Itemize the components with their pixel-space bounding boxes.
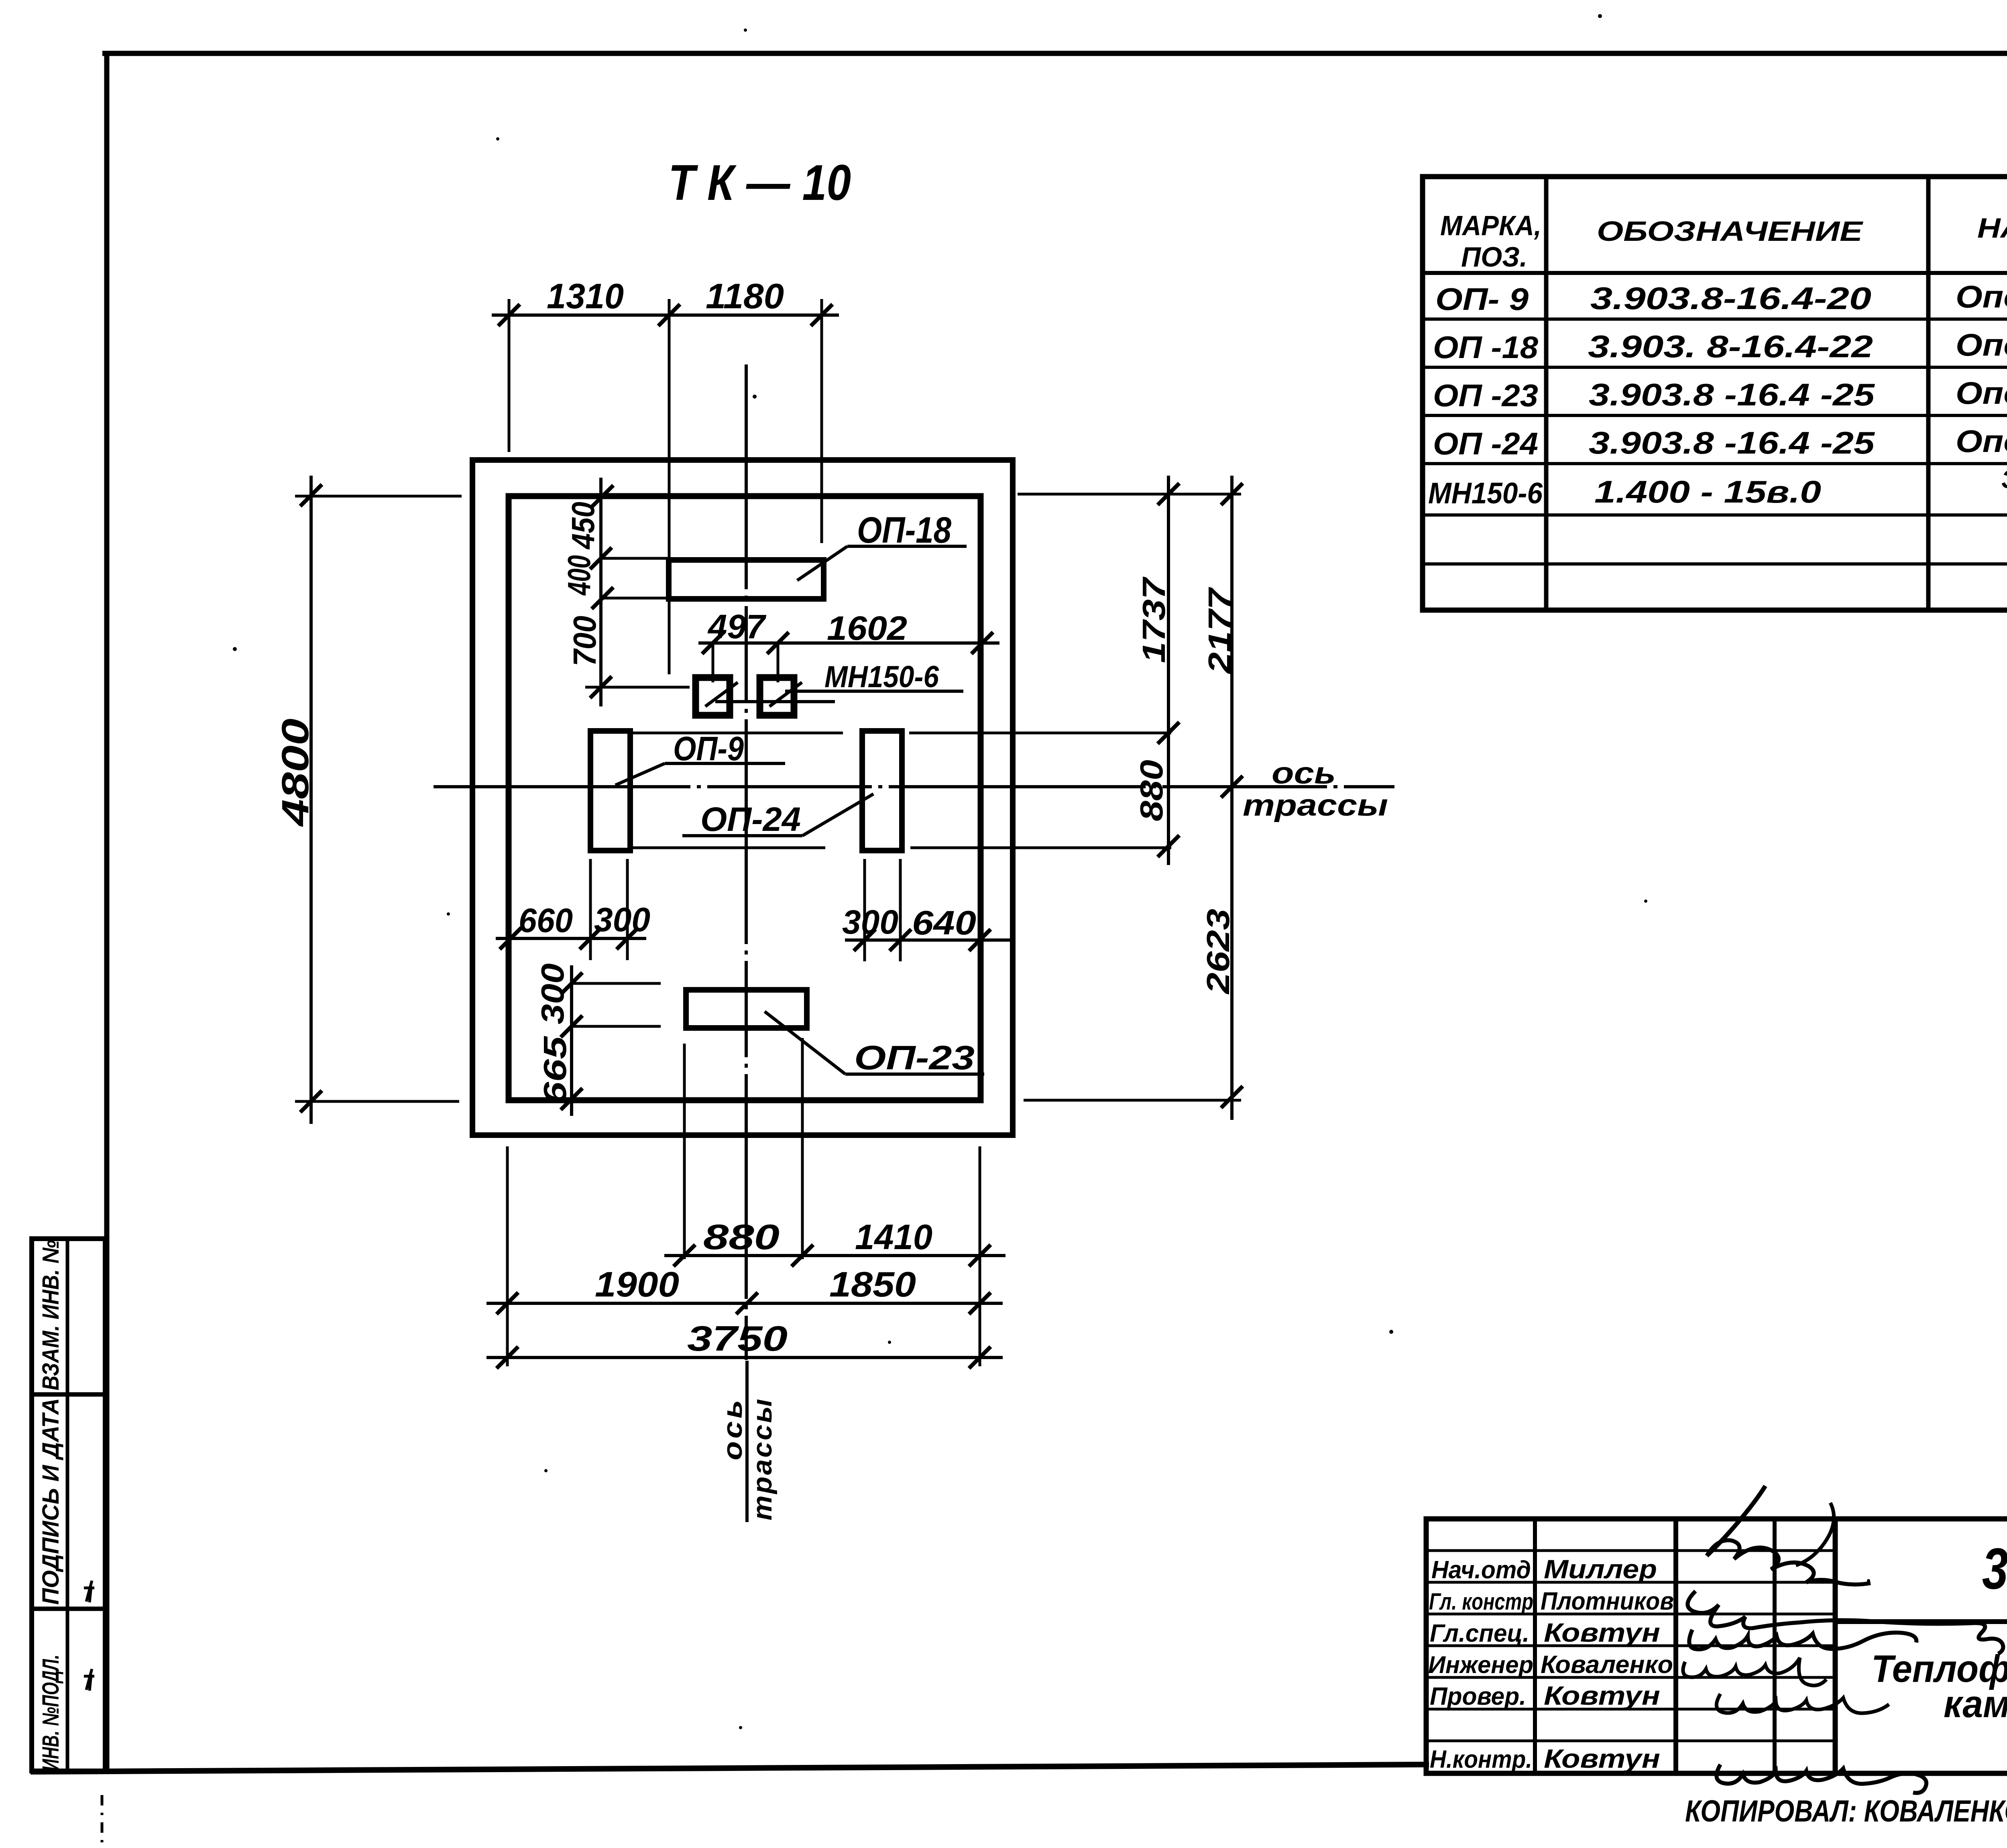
chamber inner wall	[509, 496, 981, 1100]
sheet frame top border	[102, 51, 2007, 56]
svg-text:Опора: Опора	[1956, 279, 2007, 314]
dimension 1310/1180 top	[492, 313, 839, 317]
vertical axis center line	[745, 364, 748, 1360]
svg-text:ОП-23: ОП-23	[854, 1039, 975, 1077]
svg-text:ПОДПИСЬ И ДАТА: ПОДПИСЬ И ДАТА	[38, 1398, 64, 1605]
opora OP-9 rectangle	[590, 731, 630, 851]
svg-text:камера ТК-10: камера ТК-10	[1944, 1683, 2007, 1726]
svg-text:Миллер: Миллер	[1544, 1554, 1657, 1584]
svg-text:Нач.отд: Нач.отд	[1431, 1556, 1531, 1584]
horizontal trace axis line	[434, 785, 1394, 788]
svg-text:1850: 1850	[829, 1264, 916, 1304]
dimension 660/300 bottom left	[496, 937, 646, 940]
embedded item MN150-6 square right	[760, 678, 794, 715]
opora OP-23 rectangle	[686, 990, 807, 1028]
svg-text:Опора: Опора	[1956, 423, 2007, 459]
dimension 1737/880 right inner	[1167, 476, 1170, 865]
title block signature area row lines	[1426, 1549, 1835, 1552]
svg-text:ось: ось	[1272, 756, 1336, 790]
svg-text:ОП- 9: ОП- 9	[1435, 281, 1529, 317]
svg-text:Провер.: Провер.	[1430, 1683, 1526, 1710]
svg-text:ОП-18: ОП-18	[857, 510, 952, 551]
dimension 497/1602	[698, 641, 999, 645]
svg-text:1410: 1410	[855, 1217, 932, 1257]
dimension chain 450/400/700 left inner	[599, 478, 603, 706]
svg-text:трассы: трассы	[747, 1397, 778, 1520]
svg-text:Гл. констр: Гл. констр	[1429, 1589, 1533, 1615]
sheet frame left border	[104, 51, 110, 1771]
svg-text:300: 300	[842, 903, 898, 941]
svg-text:КОПИРОВАЛ: КОВАЛЕНКО: КОПИРОВАЛ: КОВАЛЕНКО	[1685, 1794, 2007, 1828]
scan dashed stub bottom left	[101, 1795, 104, 1848]
svg-text:Ковтун: Ковтун	[1544, 1618, 1660, 1647]
svg-text:300: 300	[594, 901, 650, 938]
right extension lines	[1018, 493, 1241, 496]
svg-text:4800: 4800	[274, 718, 317, 827]
stamp handwriting mark 2	[84, 1669, 94, 1691]
svg-text:1310: 1310	[547, 276, 624, 316]
svg-text:Плотников: Плотников	[1541, 1587, 1674, 1615]
svg-text:1737: 1737	[1136, 576, 1172, 663]
svg-text:300: 300	[535, 963, 570, 1024]
svg-text:ИНВ. №ПОДЛ.: ИНВ. №ПОДЛ.	[38, 1655, 64, 1771]
svg-text:Закладное: Закладное	[2001, 465, 2007, 494]
svg-text:3.903.8 -16.4 -25: 3.903.8 -16.4 -25	[1589, 377, 1875, 412]
svg-text:ОП -24: ОП -24	[1433, 426, 1538, 461]
bottom extension stubs	[506, 1146, 509, 1366]
svg-text:400: 400	[561, 555, 597, 596]
signature Miller flourish	[1707, 1486, 1765, 1556]
svg-text:ПОЗ.: ПОЗ.	[1461, 241, 1527, 273]
svg-text:497: 497	[707, 608, 766, 645]
svg-text:ось: ось	[717, 1397, 748, 1460]
dimension 880/1410 bottom	[664, 1254, 1006, 1257]
signature Kovtun 1	[1689, 1630, 1916, 1649]
svg-text:Гл.спец.: Гл.спец.	[1430, 1620, 1529, 1647]
svg-text:Коваленко: Коваленко	[1541, 1651, 1673, 1679]
svg-text:880: 880	[1134, 760, 1169, 821]
svg-text:450: 450	[565, 502, 601, 550]
svg-text:1.400 - 15в.0: 1.400 - 15в.0	[1594, 474, 1821, 509]
svg-text:1900: 1900	[595, 1264, 679, 1304]
signature Kovalenko	[1683, 1658, 1826, 1685]
MN150-6 leader slash right square	[769, 682, 802, 706]
svg-text:2177: 2177	[1202, 587, 1238, 675]
embedded item MN150-6 square left	[696, 678, 730, 715]
svg-text:880: 880	[703, 1217, 780, 1257]
svg-text:ВЗАМ. ИНВ. №: ВЗАМ. ИНВ. №	[38, 1240, 64, 1390]
svg-text:700: 700	[567, 616, 603, 666]
opora OP-18 rectangle	[669, 560, 824, 599]
table column divider 2	[1926, 177, 1931, 610]
dimension 3750 bottom	[486, 1356, 1003, 1359]
dimension 300/640 bottom right	[845, 938, 1012, 942]
chamber outer wall	[472, 460, 1013, 1135]
vertical axis label underline segment	[745, 1361, 749, 1522]
signature Plotnikov	[1687, 1591, 2003, 1654]
dimension chain 300/665 lower left	[570, 965, 573, 1116]
svg-text:640: 640	[912, 904, 976, 942]
svg-text:1180: 1180	[706, 276, 784, 316]
table row lines	[1423, 317, 2007, 321]
sheet frame bottom border	[31, 1765, 1429, 1772]
svg-text:ОП -23: ОП -23	[1433, 378, 1538, 413]
title block signature area verticals	[1533, 1519, 1537, 1773]
svg-text:ОП-9: ОП-9	[673, 730, 744, 767]
svg-text:Т К — 10: Т К — 10	[668, 155, 851, 211]
svg-text:МН150-6: МН150-6	[824, 660, 939, 694]
svg-text:Ковтун: Ковтун	[1544, 1681, 1660, 1710]
table column divider 1	[1544, 177, 1549, 610]
svg-text:Опора: Опора	[1956, 327, 2007, 362]
left margin stamp column outline	[32, 1239, 105, 1771]
svg-text:ОБОЗНАЧЕНИЕ: ОБОЗНАЧЕНИЕ	[1597, 216, 1864, 247]
svg-text:665: 665	[537, 1036, 573, 1105]
svg-text:3.903.8 - 16.4 -10: 3.903.8 - 16.4 -10	[1982, 1536, 2007, 1601]
specification table outline	[1423, 177, 2007, 610]
dimension 1900/1850 bottom	[486, 1302, 1003, 1305]
signature Kovtun 2	[1716, 1694, 1889, 1713]
svg-text:Опора: Опора	[1956, 375, 2007, 411]
svg-text:МН150-6: МН150-6	[1428, 476, 1543, 510]
svg-text:Инженер: Инженер	[1428, 1651, 1533, 1678]
svg-text:ОП -18: ОП -18	[1433, 330, 1539, 365]
document number cell divider	[1835, 1619, 2007, 1624]
svg-text:НАИМЕНОВАНИЕ: НАИМЕНОВАНИЕ	[1977, 212, 2007, 244]
signature Kovtun 3	[1716, 1765, 1926, 1793]
stamp handwriting mark 1	[84, 1581, 94, 1602]
title block outline	[1426, 1519, 2007, 1773]
svg-text:1602: 1602	[827, 609, 907, 647]
svg-text:Н.контр.: Н.контр.	[1430, 1746, 1532, 1773]
scan speck dot top	[1598, 14, 1602, 18]
svg-text:3.903.8-16.4-20: 3.903.8-16.4-20	[1590, 281, 1871, 316]
svg-text:3750: 3750	[687, 1319, 788, 1358]
dimension 4800 left	[309, 476, 313, 1124]
stamp cell divider 2	[32, 1607, 105, 1611]
svg-text:МАРКА,: МАРКА,	[1440, 210, 1541, 241]
svg-text:3.903.8 -16.4 -25: 3.903.8 -16.4 -25	[1589, 425, 1875, 460]
svg-text:2623: 2623	[1200, 909, 1236, 995]
svg-text:Ковтун: Ковтун	[1544, 1744, 1660, 1773]
svg-text:660: 660	[519, 902, 573, 939]
dimension 2177/2623 right outer	[1230, 476, 1234, 1120]
stamp cell divider 1	[32, 1392, 105, 1397]
svg-text:трассы: трассы	[1243, 788, 1388, 822]
MN150-6 leader slash left square	[705, 682, 738, 706]
opora OP-24 rectangle	[862, 731, 902, 851]
svg-text:ОП-24: ОП-24	[700, 800, 801, 838]
table header bottom line	[1423, 271, 2007, 275]
stamp label sub-column divider	[66, 1239, 69, 1771]
svg-text:3.903. 8-16.4-22: 3.903. 8-16.4-22	[1588, 329, 1873, 364]
